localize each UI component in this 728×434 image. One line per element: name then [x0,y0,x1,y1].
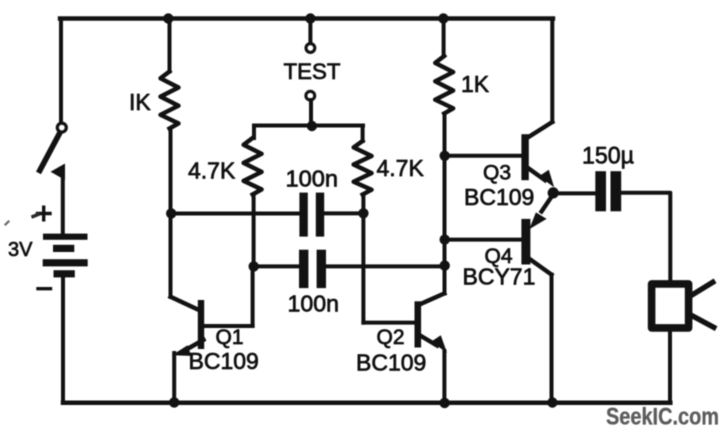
resistor R2 1K zigzag [435,56,453,114]
transistor Q1 collector lead [171,297,199,310]
wire Q1 emitter down to ground rail [172,353,176,403]
transistor Q1 emitter lead with arrow [181,340,204,353]
switch S1 blade [40,134,60,171]
wire Q3 base from rail [445,154,522,158]
wire battery - down to bottom rail [61,276,65,403]
wire Q1 base rail up to node [251,266,255,326]
switch S1 fixed contact arrow [51,164,66,181]
battery B1 plate short 1 [53,245,74,252]
svg-text:150µ: 150µ [582,143,634,170]
wire resistor R3 down crossing y213 to Q1 base node [252,195,256,267]
scan speck near plus sign [33,215,38,217]
node Q4 collector / ground rail [547,397,557,407]
svg-text:1K: 1K [461,71,490,97]
transistor Q2 collector lead [421,293,444,303]
transistor Q3 emitter lead with arrow [529,169,545,181]
svg-text:BC109: BC109 [189,348,259,374]
transistor Q4 emitter lead with arrow pointing to bar (PNP) [542,195,554,212]
switch S1 pole circle [57,123,66,132]
svg-text:BCY71: BCY71 [463,264,536,290]
node Q3 base / R2 rail [440,151,450,161]
svg-text:TEST: TEST [284,59,341,84]
capacitor C1 100n right plate [316,193,324,237]
wire TEST lower stub to bias rail [309,100,313,126]
svg-text:SeekIC.com: SeekIC.com [606,404,719,431]
wire capacitor C3 to speaker top corner [621,193,670,281]
svg-text:100n: 100n [286,166,339,192]
wire Q1 base to right rail [204,324,253,328]
svg-text:3V: 3V [8,239,33,261]
transistor Q3 collector lead [529,122,553,137]
wire speaker bottom to ground rail [668,332,672,403]
wire Q2 emitter down to ground rail [442,351,446,403]
test point TEST lower terminal [306,91,315,100]
svg-text:Q2: Q2 [377,326,405,349]
node Q4 base / R2 rail [440,234,450,244]
speaker LS1 body [652,284,689,328]
wire bias rail to resistor R4 [361,126,365,142]
wire bias rail to resistor R3 [252,126,256,139]
capacitor C1 100n left plate [299,193,307,237]
node Q2 emitter / ground rail [439,398,449,408]
battery B1 plate short 2 [54,270,75,277]
transistor Q4 base bar [521,219,530,265]
battery B1 plus sign [38,207,51,220]
wire left rail from top rail down to switch [59,19,63,124]
wire top supply rail [60,16,553,20]
node R1 rail / C1 wire [166,208,176,218]
transistor Q4 collector lead [530,260,551,275]
svg-text:Q3: Q3 [483,162,511,185]
svg-text:BC109: BC109 [356,350,426,376]
svg-text:4.7K: 4.7K [377,155,425,181]
wire Q2 base from left rail [363,321,414,325]
capacitor C3 150u right plate [611,171,622,211]
wire node Q1-collector to capacitor C1 left plate [171,212,300,216]
transistor Q3 base bar [521,134,528,180]
node top rail / R1 [163,13,173,23]
speaker LS1 upper cone line [692,282,713,295]
wire top rail to resistor R2 [442,19,446,57]
node Q3-Q4 emitters / C3 [548,187,559,198]
wire capacitor C2 right plate to Q2 collector rail [326,264,445,268]
wire resistor R2 down through Q3/Q4 base nodes to Q2 collector [443,114,447,294]
battery B1 plate long 1 [43,234,88,240]
wire Q1 base node to capacitor C2 left plate [254,264,299,268]
transistor Q1 base bar [198,300,204,349]
wire resistor R1 down to node y213 and Q1 collector rail [169,129,173,297]
test point TEST upper terminal [306,44,315,53]
node top rail / TEST stub [305,13,315,23]
svg-text:Q1: Q1 [216,326,244,349]
wire Q4 base from rail [445,238,522,242]
transistor Q2 emitter lead with arrow [421,336,437,346]
wire Q3 collector up to top rail [550,19,554,123]
resistor R1 IK zigzag [161,72,179,129]
svg-text:4.7K: 4.7K [188,158,236,184]
capacitor C2 100n right plate [317,250,326,288]
capacitor C2 100n left plate [299,250,308,288]
wire emitter node to capacitor C3 [553,191,595,195]
battery B1 minus sign [38,287,51,290]
node TEST lower stub / bias rail [307,121,317,131]
wire top rail to resistor R1 [168,19,172,72]
wire resistor R4 down through node y213 to Q2 base [361,195,365,323]
speaker LS1 lower cone line [692,315,714,327]
svg-text:100n: 100n [288,291,340,317]
wire TEST stub from top rail [308,19,312,44]
node C1 wire / Q2 base rail [358,208,368,218]
node C2 wire / R2 rail [440,260,450,270]
wire Q4 collector down to ground rail [550,275,554,403]
node Q1 base / R3 / C2 [249,261,259,271]
wire capacitor C1 right plate to Q2 base rail [324,211,363,215]
svg-text:IK: IK [129,89,151,115]
battery B1 plate long 2 [43,259,88,266]
svg-text:BC109: BC109 [464,184,534,210]
capacitor C3 150u left plate [595,171,606,211]
scan speck lower left edge [6,222,9,225]
node Q1 emitter / ground rail [169,397,179,407]
wire bottom ground rail [63,401,670,406]
wire bias rail y125 between 4.7K resistors [254,124,363,128]
resistor R3 4.7K left zigzag [244,138,262,195]
wire switch lower terminal to battery + [61,172,65,233]
resistor R4 4.7K right zigzag [354,141,372,195]
transistor Q2 base bar [415,301,422,347]
node top rail / R2 [438,13,448,23]
